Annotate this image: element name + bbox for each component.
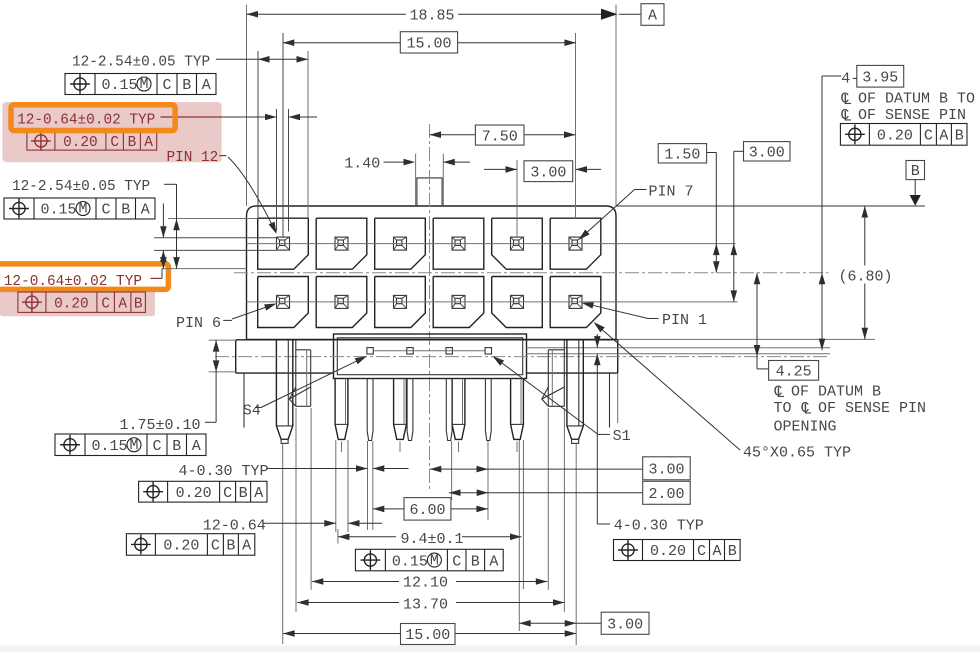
pad row1 col5: [492, 218, 543, 269]
svg-text:S1: S1: [613, 428, 631, 445]
svg-text:C: C: [101, 202, 110, 219]
leader S1: [494, 357, 598, 434]
dim 7.50: [430, 134, 476, 136]
datum B symbol: [906, 161, 925, 180]
highlight region 2 (pink): [0, 288, 155, 316]
leader elbow 12-0.64 bottom: [161, 269, 163, 279]
ext line 1.75 top: [209, 339, 236, 341]
svg-text:0.20: 0.20: [163, 538, 199, 555]
ext line pin row1 top: [154, 237, 277, 239]
svg-text:9.4±0.1: 9.4±0.1: [401, 531, 464, 548]
svg-text:12-2.54±0.05 TYP: 12-2.54±0.05 TYP: [72, 55, 210, 71]
solder pin col 517: [511, 379, 524, 440]
svg-text:3.00: 3.00: [530, 164, 566, 181]
svg-text:B: B: [239, 485, 248, 502]
dim 3.00 bottom: [519, 620, 531, 627]
tick below pin 341.5: [341, 442, 343, 453]
svg-text:PIN 6: PIN 6: [176, 315, 221, 332]
left board peg: [276, 340, 292, 440]
sense pin S2 body: [446, 379, 452, 441]
housing horizontal centerline (dash-dot): [234, 272, 829, 274]
svg-text:C: C: [101, 296, 110, 312]
feature control frame 9.4: [355, 549, 503, 571]
svg-text:0.20: 0.20: [54, 296, 89, 312]
pad row1 col3: [375, 218, 426, 269]
svg-text:B: B: [226, 538, 235, 555]
pad row1 col2: [316, 218, 367, 269]
pin row1 col4: [452, 237, 465, 250]
pin row2 col1: [277, 295, 290, 308]
svg-text:A: A: [648, 8, 657, 25]
feature control frame 2.54 top: [65, 74, 216, 95]
ext line pin2 left 0.64: [335, 440, 337, 532]
svg-text:B: B: [728, 543, 737, 560]
sense pin opening center line: [215, 356, 830, 358]
sense pin S4 opening: [367, 348, 373, 354]
svg-text:A: A: [192, 438, 201, 455]
front view body band: [236, 339, 618, 341]
leader 45 deg: [595, 324, 740, 450]
pin row1 col1: [277, 237, 290, 250]
pin row2 col4: [452, 295, 465, 308]
dim 3.00 row pitch: [744, 142, 791, 161]
svg-text:B: B: [134, 296, 143, 312]
dim 2.00 sense: [449, 489, 461, 496]
svg-text:OF SENSE PIN: OF SENSE PIN: [858, 107, 966, 124]
svg-text:0.20: 0.20: [877, 128, 913, 145]
pin row2 col6: [569, 295, 582, 308]
ext line pad1 right (2.54): [307, 51, 309, 218]
feature control frame 2.54 left: [4, 198, 155, 219]
solder pin col 400: [394, 379, 407, 440]
svg-text:3.00: 3.00: [607, 616, 643, 633]
svg-text:2.00: 2.00: [648, 486, 684, 503]
svg-text:A: A: [118, 296, 127, 312]
shroud front face: [334, 334, 527, 379]
svg-text:(6.80): (6.80): [839, 269, 893, 286]
ext line tab left: [415, 154, 417, 206]
ext line peg tip col6 15.00: [575, 444, 577, 645]
svg-text:12-0.64±0.02 TYP: 12-0.64±0.02 TYP: [4, 274, 142, 290]
ext line right body edge: [617, 373, 619, 423]
ext line S2 right edge 2.00: [451, 441, 453, 500]
right retention latch: [563, 340, 565, 407]
ext line 18.85 left: [246, 5, 248, 206]
housing top tab: [417, 178, 442, 206]
svg-text:C: C: [110, 135, 119, 151]
svg-text:A: A: [939, 128, 948, 145]
svg-text:A: A: [144, 135, 153, 151]
leader PIN 1: [584, 303, 648, 318]
svg-text:A: A: [254, 485, 263, 502]
svg-text:0.20: 0.20: [650, 543, 686, 560]
ext line latch right edge 12.10: [310, 408, 312, 590]
svg-text:12-2.54±0.05 TYP: 12-2.54±0.05 TYP: [12, 179, 150, 195]
svg-text:1.40: 1.40: [344, 156, 380, 173]
orange box 2: [0, 264, 168, 290]
ext line peg tip col1: [282, 444, 284, 644]
pin row2 col2: [335, 295, 348, 308]
leader S4: [261, 357, 365, 407]
ext line S4 right edge: [372, 441, 374, 530]
connector housing top view: [247, 206, 617, 339]
svg-text:A: A: [489, 553, 498, 570]
svg-text:A: A: [202, 77, 211, 94]
solder pin col 458.5: [452, 379, 465, 440]
dim 12-2.54 vertical: [176, 184, 178, 268]
dim 4.25: [756, 273, 758, 369]
svg-text:B: B: [955, 128, 964, 145]
svg-text:M: M: [129, 437, 138, 454]
leader PIN 6: [232, 304, 274, 319]
ext line S4 left edge: [367, 441, 369, 530]
leader PIN 12: [228, 157, 276, 232]
svg-text:0.15: 0.15: [102, 77, 138, 94]
svg-text:OF DATUM B TO: OF DATUM B TO: [858, 91, 975, 108]
ext line 9.4 left ext: [337, 529, 339, 544]
dim 1.75: [215, 340, 217, 422]
svg-text:OF SENSE PIN: OF SENSE PIN: [818, 400, 926, 417]
feature control frame 1.75: [55, 434, 206, 456]
pad row1 col1: [258, 218, 309, 269]
svg-text:1.75±0.10: 1.75±0.10: [120, 417, 201, 434]
svg-text:B: B: [471, 553, 480, 570]
sense pin S1 body: [485, 379, 491, 441]
sense pin S3 body: [407, 379, 413, 441]
highlight region 1 (pink): [2, 102, 221, 162]
ext line right latch left 12.10: [547, 408, 549, 590]
footer strip: [0, 646, 980, 652]
ext line pin1 left (0.64): [276, 109, 278, 232]
svg-text:18.85: 18.85: [409, 8, 454, 25]
ext line tab right: [442, 154, 444, 206]
svg-text:3.95: 3.95: [862, 69, 898, 86]
svg-text:3.00: 3.00: [749, 145, 785, 162]
svg-text:45°X0.65 TYP: 45°X0.65 TYP: [743, 445, 851, 462]
ext line pin5 left 3.00: [518, 440, 520, 631]
svg-text:0.20: 0.20: [63, 135, 98, 151]
pin row2 col5: [511, 295, 524, 308]
svg-text:A: A: [242, 538, 251, 555]
pad row2 col3: [375, 277, 426, 328]
svg-text:A: A: [712, 543, 721, 560]
ext line pin5 right: [522, 440, 524, 589]
svg-text:12.10: 12.10: [403, 575, 448, 592]
left wing edge: [243, 373, 245, 427]
svg-text:4-0.30 TYP: 4-0.30 TYP: [614, 518, 704, 535]
pin row2 col3: [394, 295, 407, 308]
feature control frame 0.64 bottom: [126, 534, 254, 556]
svg-text:TO: TO: [774, 400, 792, 417]
row centerline pins 1-6: [247, 301, 738, 303]
tick below pin 400: [399, 442, 401, 453]
ext line pin1 right (0.64): [288, 109, 290, 232]
pad row2 col5: [492, 277, 543, 328]
datum A box: [641, 4, 664, 26]
pad row2 col4: [433, 277, 484, 328]
svg-text:M: M: [139, 76, 148, 93]
ext line 15.00 left col1: [282, 33, 284, 237]
svg-text:PIN 12: PIN 12: [167, 150, 219, 166]
svg-text:3.00: 3.00: [648, 462, 684, 479]
sense pin line ext right upper: [527, 347, 831, 349]
svg-text:0.20: 0.20: [176, 485, 212, 502]
ext line pad row1 top: [168, 218, 258, 220]
ext line S1 center 3.00/6.00: [487, 441, 489, 520]
pad row1 col4: [433, 218, 484, 269]
svg-text:C: C: [924, 128, 933, 145]
feature control frame sense top: [840, 124, 967, 146]
svg-text:C: C: [697, 543, 706, 560]
svg-text:12-0.64: 12-0.64: [203, 518, 266, 535]
dim 15.00 top: [283, 42, 401, 44]
ext line right latch right 13.70: [563, 408, 565, 612]
svg-text:PIN 7: PIN 7: [649, 184, 694, 201]
ext line 15.00 right col6: [575, 33, 577, 218]
ext line pad1 left (2.54): [257, 51, 259, 218]
svg-text:M: M: [78, 201, 87, 218]
tick below pin 458.5: [458, 442, 460, 453]
ext line pin row1 bottom: [154, 249, 277, 251]
housing top edge ext to (6.80): [616, 338, 875, 340]
svg-text:B: B: [911, 163, 920, 180]
svg-text:15.00: 15.00: [406, 36, 451, 53]
pad row2 col6: [550, 277, 601, 328]
svg-text:7.50: 7.50: [482, 128, 518, 145]
svg-text:C: C: [162, 77, 171, 94]
pad row2 col2: [316, 277, 367, 328]
ext line pad row1 bottom: [162, 268, 247, 270]
right board peg: [567, 340, 583, 440]
sense pins connecting line: [373, 350, 485, 352]
svg-text:0.15: 0.15: [41, 202, 77, 219]
svg-text:M: M: [430, 552, 439, 569]
ext line col5 (3.00 top): [516, 160, 518, 237]
left retention latch: [295, 340, 297, 407]
dim 15.00 bottom: [283, 630, 295, 637]
svg-text:15.00: 15.00: [405, 627, 450, 644]
svg-text:PIN 1: PIN 1: [662, 312, 707, 329]
feature control frame 0.64 left red: [18, 292, 145, 312]
right wing edge: [609, 373, 611, 427]
svg-text:B: B: [128, 135, 137, 151]
tick below pin 517: [516, 442, 518, 453]
solder pin col 341.5: [335, 379, 348, 440]
svg-text:C: C: [152, 438, 161, 455]
dim 6.00: [373, 506, 385, 513]
feature control frame 0.30 left: [139, 481, 267, 502]
sense pin S4 body: [367, 379, 373, 441]
dim 18.85: [247, 13, 407, 15]
leader 12-0.64 top: [160, 116, 222, 118]
feature control frame 0.30 right: [614, 540, 741, 561]
svg-text:13.70: 13.70: [403, 597, 448, 614]
ext line pin2 right 0.64: [347, 440, 349, 532]
ext line 18.85 right / housing right: [615, 5, 617, 206]
svg-text:S4: S4: [243, 403, 261, 420]
svg-text:OF DATUM B: OF DATUM B: [791, 384, 881, 401]
dim 3.00 top: [484, 168, 517, 170]
svg-text:1.50: 1.50: [664, 147, 700, 164]
svg-text:B: B: [182, 77, 191, 94]
svg-text:0.15: 0.15: [92, 438, 128, 455]
svg-text:OPENING: OPENING: [774, 419, 837, 436]
dim 12-0.64 vertical arrows: [162, 203, 164, 237]
pad row1 col6: [550, 218, 601, 269]
svg-text:C: C: [211, 538, 220, 555]
svg-text:C: C: [223, 485, 232, 502]
svg-text:6.00: 6.00: [409, 502, 445, 519]
svg-text:4.25: 4.25: [776, 364, 812, 381]
svg-text:L: L: [843, 109, 852, 126]
row centerline pins 7-12: [247, 243, 736, 245]
orange box 1: [11, 105, 175, 131]
datum B plane line: [616, 205, 925, 207]
pad row2 col1: [258, 277, 309, 328]
sense pin line ext right lower: [527, 353, 831, 355]
svg-text:12-0.64±0.02 TYP: 12-0.64±0.02 TYP: [17, 113, 155, 129]
pin row1 col5: [511, 237, 524, 250]
sense pin S3 opening: [407, 348, 413, 354]
svg-text:B: B: [121, 202, 130, 219]
leader PIN 7: [580, 190, 634, 238]
ext line latch left edge 13.70: [295, 408, 297, 612]
svg-text:L: L: [803, 402, 812, 419]
vertical centerline (dash-dot): [429, 124, 431, 490]
pin row1 col3: [394, 237, 407, 250]
sense pin S1 opening: [485, 348, 491, 354]
ext line 1.75 bottom: [209, 371, 236, 373]
pin row1 col6: [569, 237, 582, 250]
svg-text:C: C: [452, 553, 461, 570]
svg-text:4-0.30 TYP: 4-0.30 TYP: [179, 463, 269, 480]
dim 0.30 sense right: [596, 334, 598, 348]
svg-text:B: B: [172, 438, 181, 455]
pin row1 col2: [335, 237, 348, 250]
svg-text:0.15: 0.15: [392, 553, 428, 570]
svg-text:A: A: [141, 202, 150, 219]
sense pin S2 opening: [446, 348, 452, 354]
feature control frame 0.64 top red: [27, 131, 157, 151]
dim 1.50: [658, 144, 706, 163]
dim 3.00 sense: [430, 466, 442, 473]
